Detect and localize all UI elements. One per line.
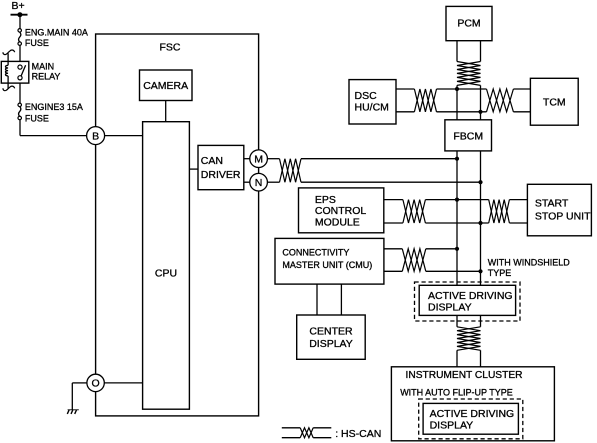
svg-text:N: N — [255, 177, 263, 189]
svg-text:ENGINE3 15A: ENGINE3 15A — [25, 102, 83, 112]
svg-text:CAN: CAN — [201, 155, 223, 167]
svg-text:MODULE: MODULE — [315, 216, 360, 228]
svg-text:MAIN: MAIN — [32, 61, 54, 71]
svg-text:ACTIVE DRIVING: ACTIVE DRIVING — [428, 290, 513, 302]
svg-text:: HS-CAN: : HS-CAN — [335, 428, 381, 440]
svg-text:WITH AUTO FLIP-UP TYPE: WITH AUTO FLIP-UP TYPE — [400, 387, 513, 397]
svg-text:RELAY: RELAY — [32, 71, 61, 81]
svg-text:MASTER UNIT (CMU): MASTER UNIT (CMU) — [282, 260, 372, 270]
svg-text:DSC: DSC — [355, 90, 378, 102]
svg-text:CENTER: CENTER — [309, 326, 353, 338]
svg-text:CAMERA: CAMERA — [143, 80, 188, 92]
svg-text:FUSE: FUSE — [25, 114, 49, 124]
svg-text:FUSE: FUSE — [25, 38, 49, 48]
svg-text:DISPLAY: DISPLAY — [309, 338, 353, 350]
svg-text:TCM: TCM — [543, 96, 566, 108]
svg-text:O: O — [92, 378, 100, 390]
svg-text:B: B — [92, 130, 99, 142]
svg-text:CONTROL: CONTROL — [315, 205, 366, 217]
svg-text:PCM: PCM — [457, 18, 480, 30]
svg-text:ENG.MAIN 40A: ENG.MAIN 40A — [25, 27, 88, 37]
svg-text:START: START — [535, 198, 569, 210]
svg-text:DISPLAY: DISPLAY — [430, 420, 474, 432]
svg-text:DRIVER: DRIVER — [201, 169, 241, 181]
svg-text:FSC: FSC — [160, 42, 181, 54]
svg-text:TYPE: TYPE — [488, 268, 512, 278]
svg-text:CONNECTIVITY: CONNECTIVITY — [282, 248, 349, 258]
svg-text:STOP UNIT: STOP UNIT — [535, 210, 591, 222]
svg-text:EPS: EPS — [315, 194, 336, 206]
svg-text:INSTRUMENT CLUSTER: INSTRUMENT CLUSTER — [406, 370, 523, 381]
svg-text:WITH WINDSHIELD: WITH WINDSHIELD — [488, 257, 570, 267]
svg-text:CPU: CPU — [155, 267, 177, 279]
svg-text:FBCM: FBCM — [453, 131, 483, 143]
svg-text:DISPLAY: DISPLAY — [428, 301, 472, 313]
svg-text:HU/CM: HU/CM — [355, 101, 389, 113]
svg-text:B+: B+ — [12, 0, 25, 12]
svg-text:ACTIVE DRIVING: ACTIVE DRIVING — [430, 408, 515, 420]
svg-text:M: M — [254, 153, 263, 165]
